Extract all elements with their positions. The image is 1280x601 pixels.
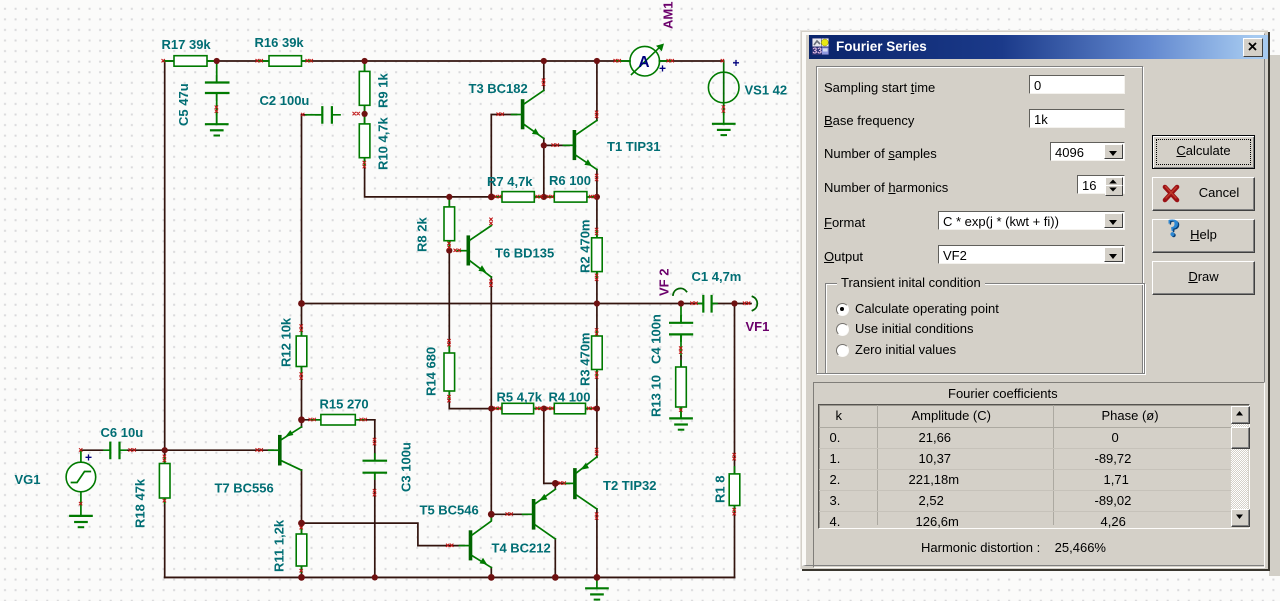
svg-text:R18 47k: R18 47k bbox=[133, 478, 148, 528]
resistor R13 10 bbox=[676, 361, 687, 410]
wire R5/R4 row bbox=[491, 408, 597, 410]
resistor R11 1,2k bbox=[296, 528, 307, 572]
transistor T2 TIP32 (pnp) bbox=[564, 457, 597, 509]
svg-text:R3 470m: R3 470m bbox=[578, 333, 593, 386]
svg-text:A: A bbox=[638, 54, 649, 71]
wire T5 base branch bbox=[302, 523, 465, 546]
title bar bbox=[809, 35, 1268, 59]
left group frame bbox=[816, 66, 1143, 374]
resistor R6 100 bbox=[547, 192, 594, 203]
capacitor C4 100n bbox=[670, 316, 692, 341]
transistor T4 BC212 (pnp) bbox=[523, 489, 556, 539]
wire T1 emitter to R6 bbox=[596, 170, 598, 197]
svg-text:T6 BD135: T6 BD135 bbox=[495, 246, 554, 261]
wire bottom ground rail bbox=[165, 576, 735, 578]
results panel bbox=[813, 382, 1265, 568]
resistor R9 1k bbox=[359, 63, 370, 112]
svg-text:+: + bbox=[85, 451, 92, 465]
wire T1 collector stub bbox=[596, 61, 598, 120]
svg-text:AM1: AM1 bbox=[661, 2, 676, 29]
capacitor C1 4,7m bbox=[698, 296, 717, 312]
wire T4 base branch bbox=[491, 409, 527, 515]
voltage source VS1 bbox=[708, 56, 739, 103]
svg-text:R6 100: R6 100 bbox=[549, 173, 591, 188]
wire left vertical (x=164.7) bbox=[164, 61, 166, 577]
svg-text:T5 BC546: T5 BC546 bbox=[420, 503, 479, 518]
transient group box bbox=[825, 283, 1145, 374]
wire T6 emitter down bbox=[490, 277, 492, 409]
transistor T3 BC182 (npn) bbox=[512, 90, 544, 138]
wire T5 emitter stub bbox=[490, 568, 492, 578]
wire C3 branch bbox=[374, 420, 376, 578]
wire T3 base branch bbox=[491, 115, 516, 197]
wire R1 load branch bbox=[734, 304, 736, 578]
wire VS1 stub bbox=[723, 61, 725, 114]
resistor R3 470m bbox=[592, 330, 603, 375]
svg-text:T4 BC212: T4 BC212 bbox=[492, 541, 551, 556]
schematic labels bbox=[15, 35, 788, 572]
svg-text:T1 TIP31: T1 TIP31 bbox=[607, 139, 660, 154]
wire T2 collector to ground rail bbox=[596, 509, 598, 577]
ground under C5 bbox=[206, 113, 228, 135]
resistor R18 47k bbox=[159, 457, 170, 503]
resistor R8 2k bbox=[444, 199, 455, 248]
wire VG1 to C6 to junction bbox=[81, 449, 165, 451]
svg-text:C2 100u: C2 100u bbox=[260, 93, 310, 108]
svg-text:R4 100: R4 100 bbox=[549, 390, 591, 405]
svg-text:R12 10k: R12 10k bbox=[279, 317, 294, 367]
svg-text:R14 680: R14 680 bbox=[424, 347, 439, 396]
wire T3 collector stub bbox=[543, 61, 545, 90]
svg-text:C3 100u: C3 100u bbox=[399, 442, 414, 492]
wire top rail bbox=[164, 60, 723, 62]
wire T5 collector stub bbox=[490, 514, 492, 520]
wire T4 collector stub bbox=[554, 539, 556, 577]
ground under VG1 bbox=[70, 504, 92, 527]
resistor R1 8 bbox=[729, 467, 740, 511]
gray strip right of dialog (window behind) bbox=[1269, 55, 1280, 576]
svg-text:R1 8: R1 8 bbox=[713, 476, 728, 503]
wire C4 to R13 bbox=[680, 304, 682, 419]
svg-text:R15 270: R15 270 bbox=[320, 397, 369, 412]
svg-text:+: + bbox=[733, 56, 740, 70]
wire T7 base branch bbox=[165, 449, 273, 451]
generator VG1 bbox=[66, 450, 96, 504]
resistor R10 4,7k bbox=[359, 116, 370, 165]
svg-text:VG1: VG1 bbox=[15, 472, 41, 487]
svg-text:T3 BC182: T3 BC182 bbox=[469, 81, 528, 96]
svg-text:R5 4,7k: R5 4,7k bbox=[497, 390, 543, 405]
wire C5 branch bbox=[216, 61, 218, 124]
svg-text:R7 4,7k: R7 4,7k bbox=[487, 174, 533, 189]
svg-text:R10 4,7k: R10 4,7k bbox=[376, 116, 391, 170]
wire R12/R11 branch (x=301.5) bbox=[301, 304, 303, 578]
transistor T6 BD135 (npn) bbox=[457, 226, 491, 277]
svg-text:+: + bbox=[659, 62, 666, 76]
svg-text:C1 4,7m: C1 4,7m bbox=[692, 269, 742, 284]
buttons bbox=[1152, 135, 1255, 169]
resistor R7 4,7k bbox=[495, 192, 542, 203]
capacitor C5 47u bbox=[206, 76, 228, 100]
svg-text:C5 47u: C5 47u bbox=[176, 83, 191, 126]
svg-text:R17 39k: R17 39k bbox=[162, 37, 212, 52]
resistor R15 270 bbox=[312, 415, 364, 426]
svg-text:R16 39k: R16 39k bbox=[255, 35, 305, 50]
probe VF1 bbox=[753, 297, 758, 311]
svg-text:VF1: VF1 bbox=[746, 319, 770, 334]
resistor R17 39k bbox=[164, 56, 217, 66]
wire R7/R6 row bbox=[491, 196, 597, 198]
svg-text:R8 2k: R8 2k bbox=[415, 217, 430, 252]
resistor R4 100 bbox=[547, 403, 592, 414]
svg-text:VS1 42: VS1 42 bbox=[745, 83, 788, 98]
svg-text:T7 BC556: T7 BC556 bbox=[215, 481, 274, 496]
svg-text:C6 10u: C6 10u bbox=[101, 425, 144, 440]
wire R2/R3 branch (x=596.9) bbox=[596, 197, 598, 409]
ground on bottom rail bbox=[586, 577, 608, 599]
wire R15 row bbox=[302, 419, 375, 421]
resistor R14 680 bbox=[444, 346, 455, 398]
resistor R2 470m bbox=[592, 231, 603, 277]
wire C2 branch down to mid rail bbox=[302, 115, 307, 304]
wire T2 emitter stub bbox=[596, 409, 598, 458]
wire T2 base bbox=[555, 482, 569, 484]
ammeter AM1 bbox=[617, 44, 671, 77]
svg-text:T2 TIP32: T2 TIP32 bbox=[603, 478, 656, 493]
dialog icon bbox=[812, 38, 829, 55]
capacitor C6 10u bbox=[104, 443, 126, 458]
wire R9/R10 branch (x=364.6) bbox=[365, 61, 492, 197]
capacitor C2 100u bbox=[316, 107, 340, 122]
resistor R5 4,7k bbox=[495, 403, 541, 414]
svg-text:33: 33 bbox=[813, 46, 823, 56]
svg-text:C4 100n: C4 100n bbox=[649, 314, 664, 364]
transistor T1 TIP31 (npn) bbox=[563, 120, 597, 169]
pin x marks bbox=[79, 59, 750, 572]
transistor T7 BC556 (pnp) bbox=[269, 427, 302, 470]
svg-text:VF 2: VF 2 bbox=[657, 269, 672, 296]
wire R8/R14 branch (x=449.3) bbox=[449, 197, 491, 409]
wire T1 base bbox=[544, 144, 569, 146]
ground under VS1 bbox=[713, 114, 735, 136]
svg-text:R11 1,2k: R11 1,2k bbox=[272, 519, 287, 572]
svg-text:R13 10: R13 10 bbox=[649, 375, 664, 417]
capacitor C3 100u bbox=[364, 454, 386, 479]
wire mid output rail bbox=[302, 303, 752, 305]
wire T3 emitter to R7 row bbox=[543, 138, 545, 197]
ground under R13 bbox=[670, 410, 692, 430]
wire T4 emitter branch from R4 junction bbox=[544, 409, 556, 489]
svg-text:R9 1k: R9 1k bbox=[376, 73, 391, 108]
probe VF2 bbox=[673, 288, 687, 295]
resistor R12 10k bbox=[296, 330, 307, 373]
svg-text:R2 470m: R2 470m bbox=[578, 220, 593, 273]
transistor T5 BC546 (npn) bbox=[460, 514, 492, 567]
resistor R16 39k bbox=[259, 56, 312, 66]
